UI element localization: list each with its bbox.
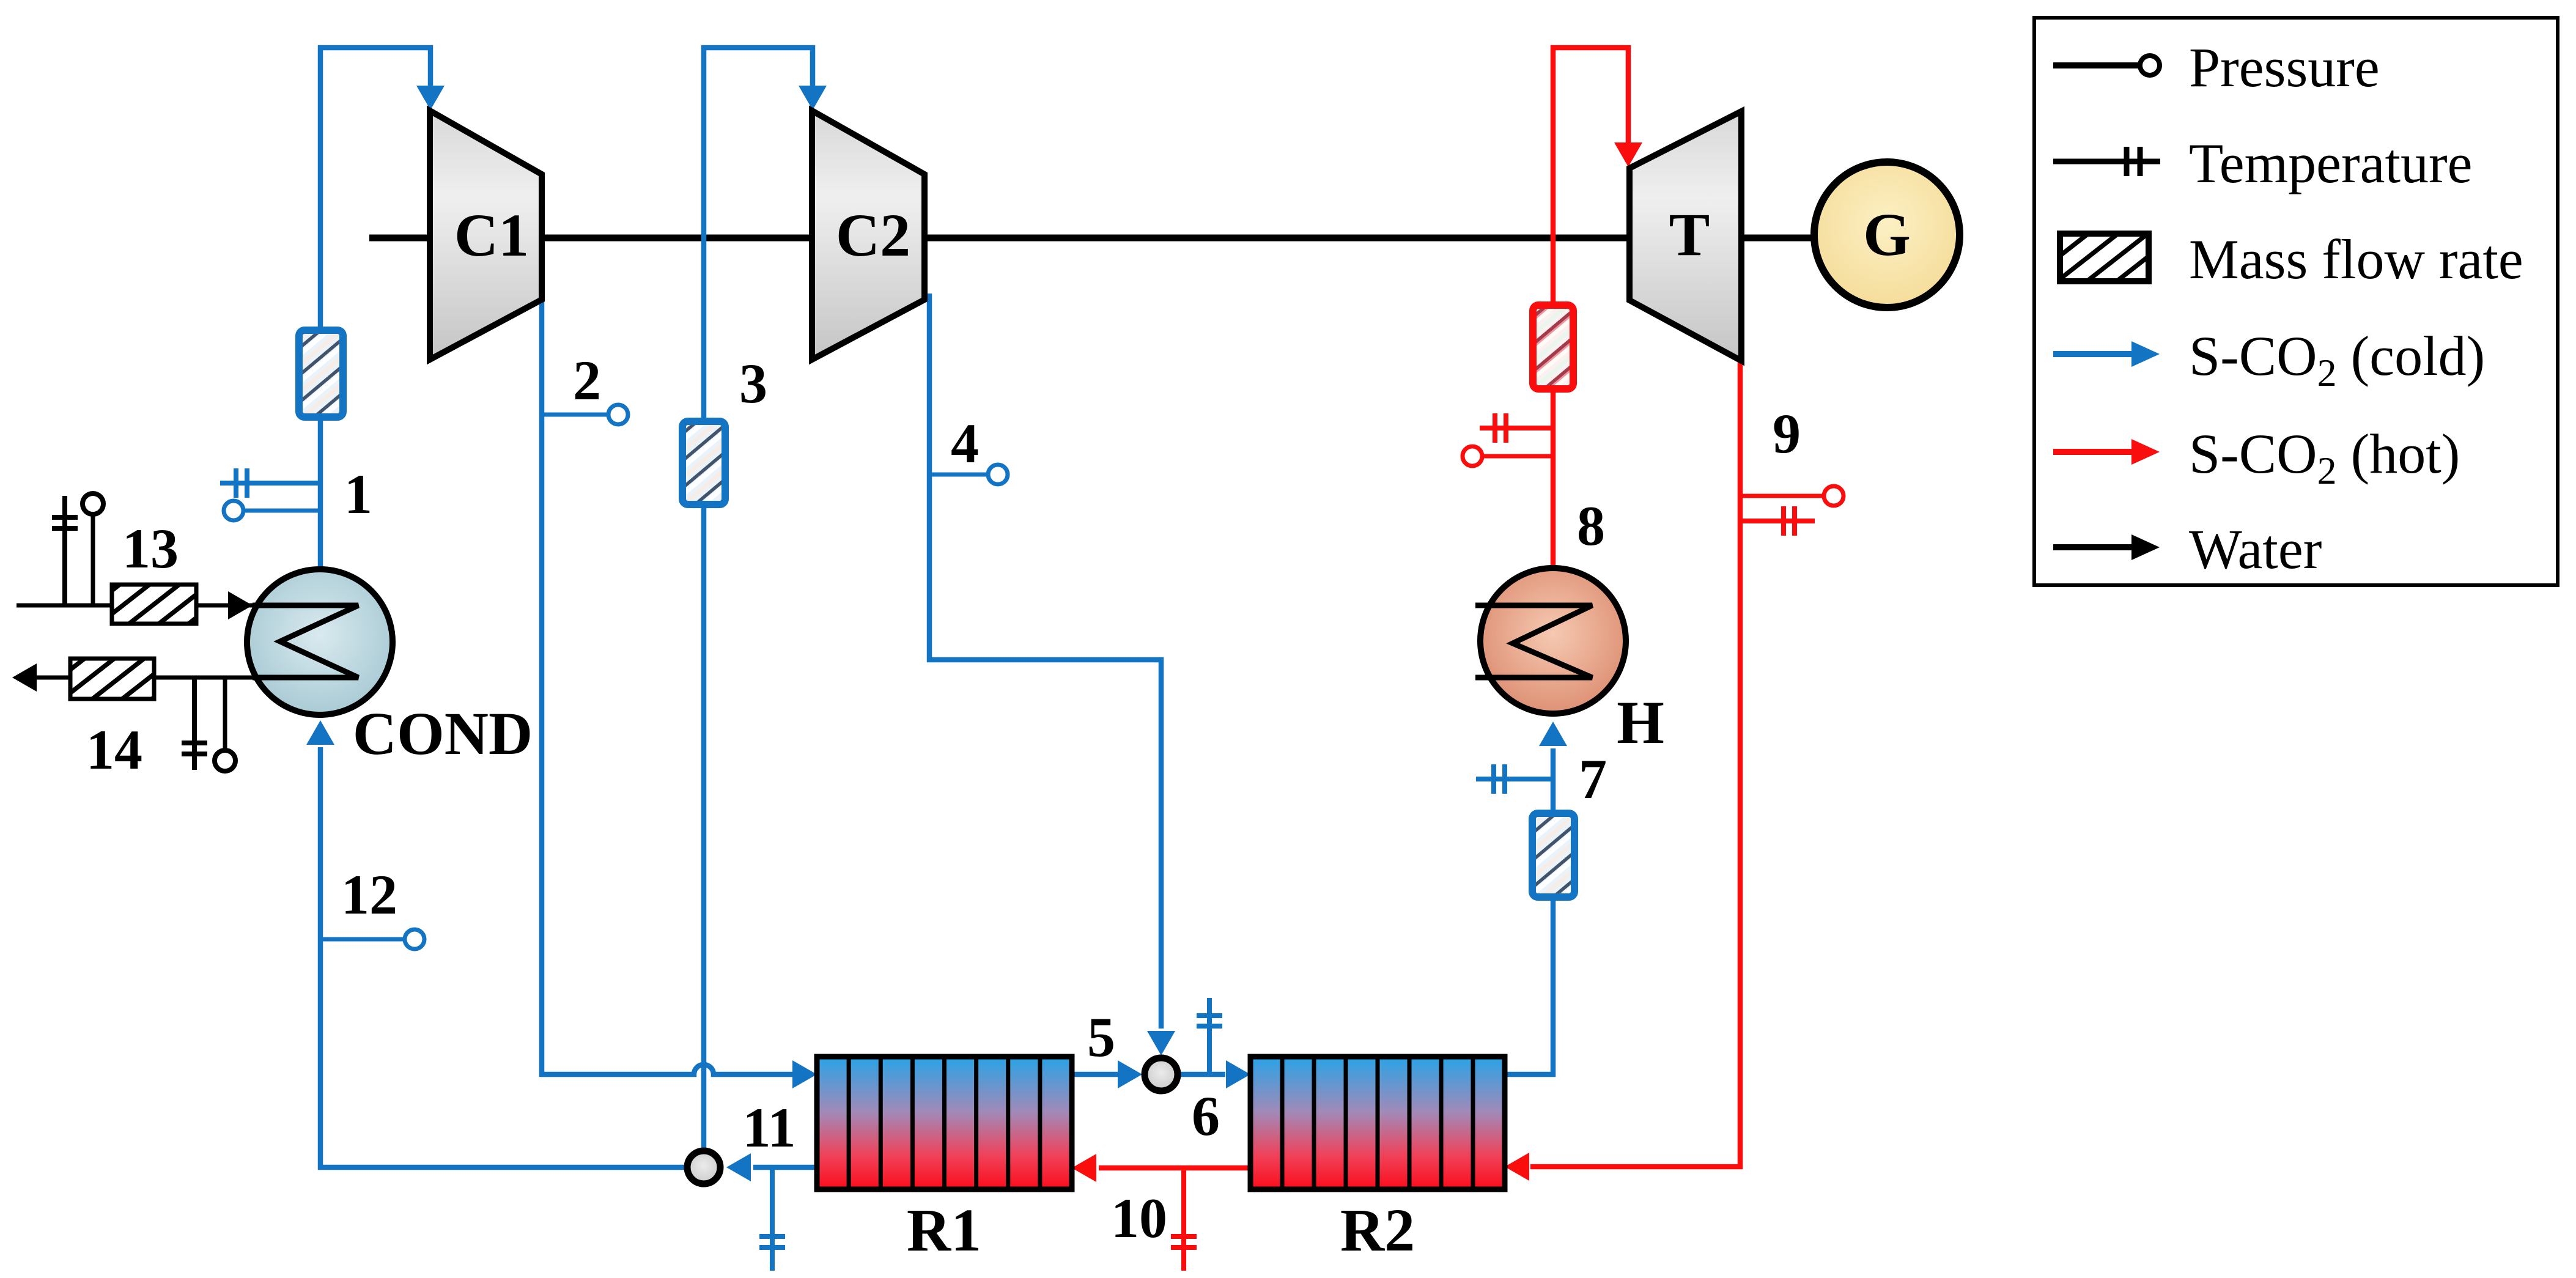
node label 13 bbox=[122, 517, 179, 580]
svg-text:6: 6 bbox=[1192, 1085, 1220, 1147]
wire stream 9: turbine outlet down and left into R2 hot inlet bbox=[1505, 362, 1740, 1181]
temperature tap on stream 1 bbox=[220, 468, 320, 498]
wire stream 2: C1 outlet down and to R1 cold inlet (hops over stream 3) bbox=[542, 301, 817, 1088]
pressure tap on stream 2 bbox=[542, 405, 628, 424]
label H bbox=[1617, 689, 1664, 756]
svg-text:Pressure: Pressure bbox=[2189, 36, 2380, 98]
wire water outlet line (stream 14) from COND bbox=[12, 663, 253, 692]
svg-text:T: T bbox=[1669, 201, 1710, 268]
mass flow rate box on water stream 14 bbox=[70, 659, 154, 699]
mass flow rate box on stream 3 bbox=[682, 421, 725, 504]
svg-text:C2: C2 bbox=[836, 201, 910, 269]
svg-text:S-CO2 (cold): S-CO2 (cold) bbox=[2189, 325, 2485, 394]
svg-text:Water: Water bbox=[2189, 518, 2322, 580]
wire stream 8: heater H outlet up and into turbine T bbox=[1553, 48, 1642, 566]
mass flow rate box on stream 7 bbox=[1532, 813, 1574, 897]
wire stream 1: COND outlet to C1 inlet (cold S-CO2) bbox=[320, 48, 445, 569]
node label 2 bbox=[573, 349, 601, 412]
temperature tap on stream 7 bbox=[1476, 764, 1553, 794]
node label 12 bbox=[341, 863, 397, 926]
recuperator R2 bbox=[1250, 1057, 1505, 1189]
condenser COND bbox=[247, 569, 393, 715]
svg-text:4: 4 bbox=[951, 412, 979, 475]
wire stream 4: C2 outlet down, right, down into mixer node bbox=[929, 294, 1175, 1055]
svg-text:COND: COND bbox=[353, 700, 533, 767]
svg-text:Mass flow rate: Mass flow rate bbox=[2189, 228, 2523, 290]
svg-text:9: 9 bbox=[1773, 402, 1801, 465]
temperature tap on stream 11 bbox=[759, 1167, 785, 1271]
svg-text:Temperature: Temperature bbox=[2189, 132, 2473, 194]
node label 11 bbox=[743, 1096, 796, 1159]
label R1 bbox=[907, 1196, 981, 1264]
recuperator R1 bbox=[817, 1057, 1072, 1189]
wire stream 10: R2 hot outlet to R1 hot inlet bbox=[1072, 1154, 1250, 1182]
shaft connecting C1, C2, T and generator G bbox=[369, 235, 1812, 242]
temperature tap on stream 9 bbox=[1740, 506, 1815, 536]
pressure tap on stream 12 bbox=[320, 929, 424, 949]
node label 5 bbox=[1087, 1006, 1115, 1068]
heater H bbox=[1475, 568, 1626, 714]
svg-text:R1: R1 bbox=[907, 1196, 981, 1264]
wire stream 12: node 11 to COND inlet bbox=[306, 720, 704, 1167]
wire stream 6: mixer node to R2 cold inlet bbox=[1180, 1060, 1250, 1088]
pressure tap on stream 1 bbox=[224, 501, 320, 520]
svg-text:R2: R2 bbox=[1340, 1196, 1415, 1264]
temperature tap on water outlet 14 bbox=[182, 678, 207, 770]
node label 1 bbox=[344, 463, 372, 525]
svg-text:H: H bbox=[1617, 689, 1664, 756]
pressure tap on stream 9 bbox=[1740, 486, 1843, 506]
temperature tap on water inlet 13 bbox=[52, 496, 78, 605]
legend box with keys bbox=[2034, 18, 2558, 585]
svg-text:13: 13 bbox=[122, 517, 179, 580]
wire stream 5: R1 cold outlet to mixer node bbox=[1072, 1060, 1142, 1088]
node label 6 bbox=[1192, 1085, 1220, 1147]
svg-text:3: 3 bbox=[739, 352, 767, 415]
pressure tap on water inlet 13 bbox=[83, 493, 103, 605]
label R2 bbox=[1340, 1196, 1415, 1264]
wire stream 3: split at node 11 up to C2 inlet bbox=[704, 48, 827, 1150]
mass flow rate box on stream 8 bbox=[1533, 305, 1573, 389]
svg-text:C1: C1 bbox=[454, 201, 529, 269]
compressor C2 bbox=[812, 111, 924, 360]
svg-text:7: 7 bbox=[1579, 748, 1607, 810]
node label 10 bbox=[1111, 1187, 1167, 1249]
svg-text:14: 14 bbox=[86, 718, 142, 781]
svg-text:G: G bbox=[1863, 201, 1911, 268]
pressure tap on water outlet 14 bbox=[215, 678, 235, 771]
mass flow rate box on water stream 13 bbox=[112, 585, 196, 624]
mixer node 5/6 junction bbox=[1145, 1058, 1178, 1091]
svg-text:12: 12 bbox=[341, 863, 397, 926]
node label 4 bbox=[951, 412, 979, 475]
pressure tap on stream 4 bbox=[932, 465, 1008, 484]
svg-text:10: 10 bbox=[1111, 1187, 1167, 1249]
mass flow rate box on stream 1 bbox=[299, 330, 343, 417]
svg-text:11: 11 bbox=[743, 1096, 796, 1159]
temperature tap on stream 8 bbox=[1480, 413, 1553, 443]
generator G bbox=[1814, 162, 1960, 308]
label COND bbox=[353, 700, 533, 767]
wire stream 11: R1 hot outlet to node 11 bbox=[726, 1153, 817, 1181]
node label 3 bbox=[739, 352, 767, 415]
pressure tap on stream 8 bbox=[1463, 446, 1553, 466]
node label 7 bbox=[1579, 748, 1607, 810]
svg-text:5: 5 bbox=[1087, 1006, 1115, 1068]
temperature tap on stream 6 bbox=[1197, 998, 1222, 1074]
temperature tap on stream 10 bbox=[1171, 1168, 1197, 1271]
wire water inlet line (stream 13) into COND bbox=[17, 591, 358, 619]
svg-text:8: 8 bbox=[1577, 495, 1605, 557]
node label 9 bbox=[1773, 402, 1801, 465]
svg-text:2: 2 bbox=[573, 349, 601, 412]
node label 8 bbox=[1577, 495, 1605, 557]
turbine T bbox=[1629, 111, 1741, 361]
splitter node 11 junction bbox=[687, 1151, 720, 1184]
compressor C1 bbox=[430, 111, 542, 360]
wire stream 7: R2 cold outlet up to heater H bbox=[1505, 722, 1567, 1074]
svg-text:1: 1 bbox=[344, 463, 372, 525]
node label 14 bbox=[86, 718, 142, 781]
